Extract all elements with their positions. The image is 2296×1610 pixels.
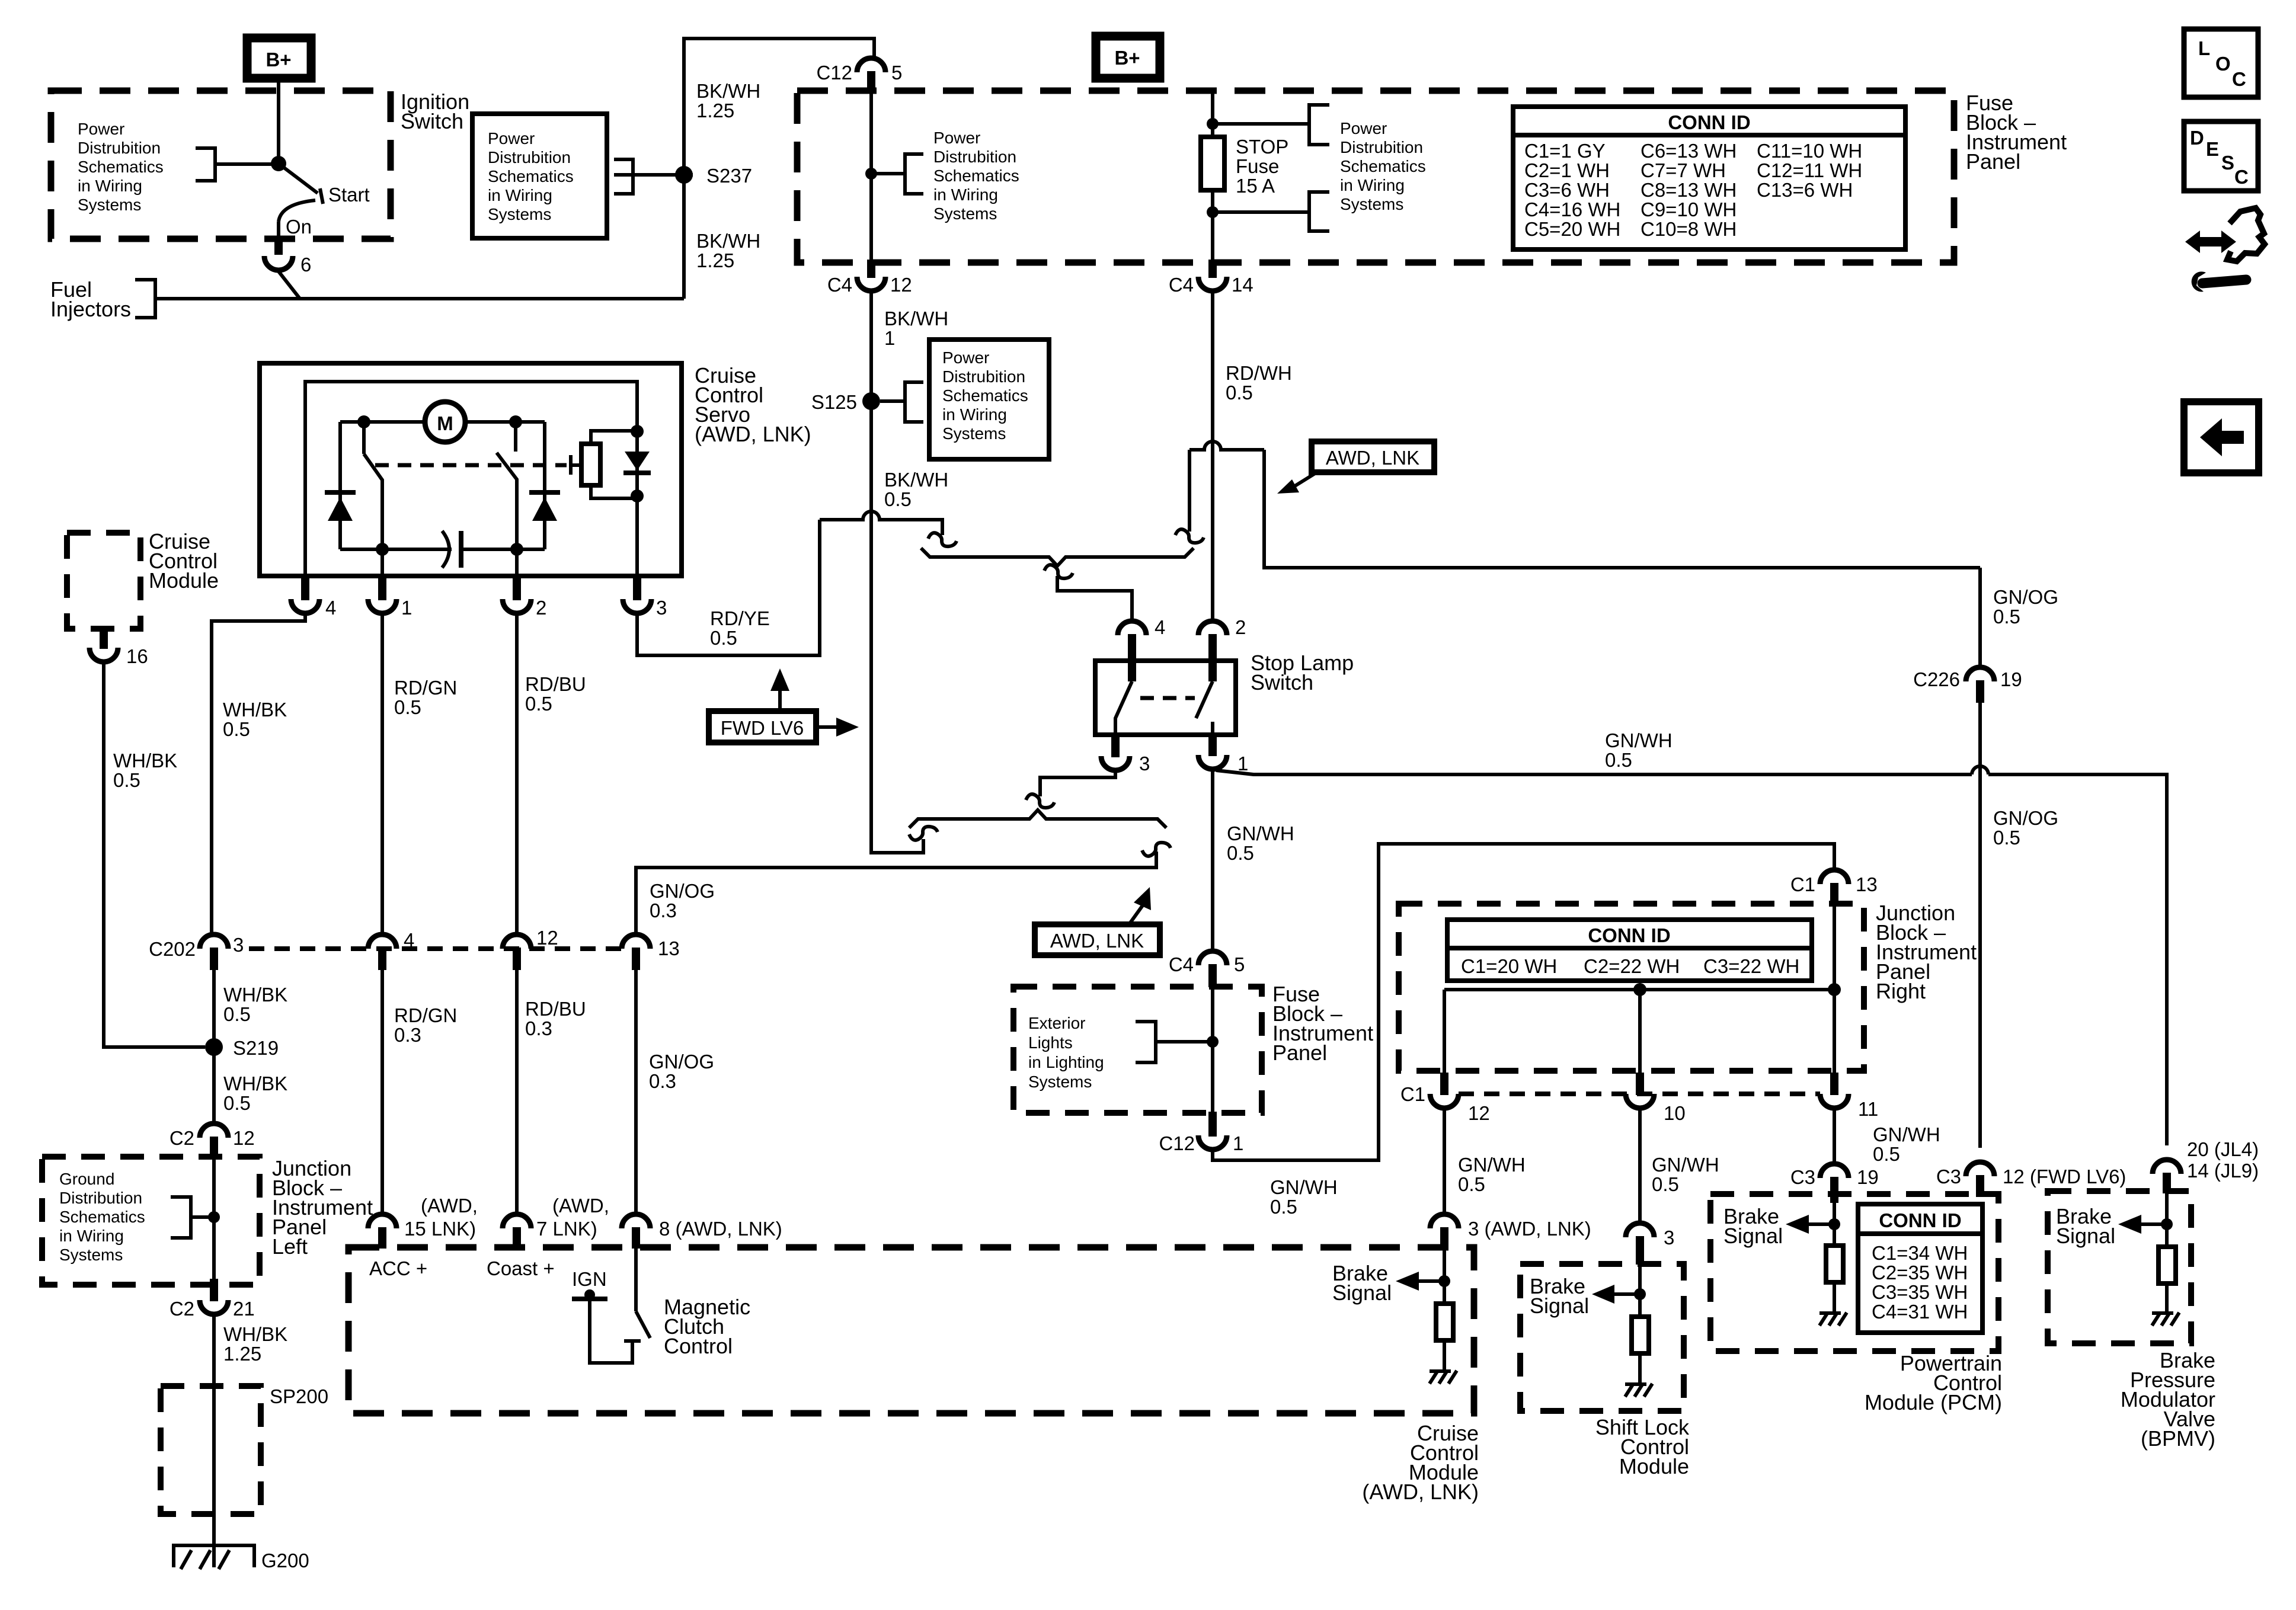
svg-text:14 (JL9): 14 (JL9)	[2187, 1160, 2259, 1182]
brake signal arrow (BPMV)	[2140, 1222, 2167, 1226]
svg-text:C10=8 WH: C10=8 WH	[1641, 218, 1737, 240]
svg-text:0.5: 0.5	[223, 1003, 251, 1025]
svg-text:15 A: 15 A	[1236, 175, 1275, 197]
magnetic clutch control switch	[634, 1249, 638, 1311]
curl: GN/OG joins brace 2	[1142, 843, 1171, 856]
svg-text:WH/BK: WH/BK	[223, 699, 287, 721]
svg-text:Distribution: Distribution	[59, 1189, 142, 1207]
svg-text:0.5: 0.5	[1227, 842, 1254, 864]
svg-text:Injectors: Injectors	[50, 297, 131, 321]
wire through junction block left	[212, 1159, 216, 1280]
wire brace 1 to stop lamp pin 4	[1057, 576, 1132, 622]
svg-text:12: 12	[1468, 1102, 1490, 1124]
connector 6 (ignition switch output)	[264, 256, 293, 270]
svg-text:G200: G200	[261, 1550, 309, 1571]
svg-text:GN/WH: GN/WH	[1873, 1124, 1940, 1145]
svg-text:B+: B+	[266, 49, 291, 71]
svg-text:C4=16 WH: C4=16 WH	[1524, 199, 1620, 220]
svg-text:0.3: 0.3	[649, 1070, 676, 1092]
svg-text:S237: S237	[706, 165, 752, 187]
svg-text:0.3: 0.3	[650, 900, 677, 921]
wire C4-14 down to stop lamp switch pin 2 (RD/WH 0.5)	[1211, 291, 1214, 621]
connector C202 pin 3	[200, 934, 228, 949]
svg-text:Signal: Signal	[1332, 1281, 1392, 1305]
svg-text:C1: C1	[1400, 1083, 1425, 1105]
svg-text:C4=31 WH: C4=31 WH	[1872, 1301, 1968, 1323]
node: ignition switch common junction	[271, 156, 286, 171]
svg-text:0.5: 0.5	[223, 718, 250, 740]
svg-text:19: 19	[2000, 668, 2022, 690]
svg-text:Systems: Systems	[59, 1246, 123, 1264]
svg-text:10: 10	[1664, 1102, 1686, 1124]
svg-text:C4: C4	[827, 274, 852, 296]
svg-text:C3: C3	[1790, 1166, 1815, 1188]
svg-text:Systems: Systems	[488, 205, 551, 223]
svg-text:Signal: Signal	[2056, 1224, 2115, 1248]
wire riser to S237 / C12-5 (BK/WH 1.25)	[684, 39, 874, 299]
motor loop left side	[338, 422, 342, 549]
wire servo pin2 to C202-12 (RD/BU 0.5)	[515, 613, 519, 934]
table CONN ID (fuse block instrument panel)	[1513, 107, 1905, 249]
svg-text:(AWD, LNK): (AWD, LNK)	[1362, 1480, 1479, 1504]
wire C4-12 down to S125 (BK/WH 1)	[869, 291, 873, 401]
svg-text:GN/WH: GN/WH	[1270, 1176, 1338, 1198]
node below stop fuse	[1207, 206, 1219, 218]
svg-text:0.5: 0.5	[1993, 827, 2020, 849]
wires pins 1,2 down inside servo	[380, 549, 384, 576]
bracket to fuel injectors	[135, 280, 155, 318]
svg-text:20 (JL4): 20 (JL4)	[2187, 1138, 2259, 1160]
wire C202-12 down (RD/BU 0.3)	[515, 970, 519, 1214]
node brake signal (BPMV)	[2161, 1218, 2173, 1230]
svg-text:1: 1	[1233, 1132, 1243, 1154]
svg-text:Left: Left	[272, 1234, 308, 1259]
svg-text:Distrubition: Distrubition	[933, 148, 1016, 166]
bracket to power distribution text (fuse block)	[905, 154, 923, 194]
svg-text:C226: C226	[1913, 668, 1960, 690]
svg-text:S219: S219	[233, 1037, 279, 1059]
svg-text:SP200: SP200	[270, 1385, 328, 1407]
svg-text:GN/OG: GN/OG	[1993, 586, 2058, 608]
svg-text:12: 12	[233, 1127, 255, 1149]
svg-text:C1=20 WH: C1=20 WH	[1461, 955, 1557, 977]
svg-text:in Wiring: in Wiring	[942, 405, 1007, 424]
connector C4 pin 12	[867, 260, 875, 278]
svg-text:3 (AWD, LNK): 3 (AWD, LNK)	[1468, 1218, 1591, 1240]
wire through SP200 to G200	[212, 1386, 216, 1547]
icon wrench/vehicle (repair info)	[2185, 231, 2236, 253]
svg-text:0.5: 0.5	[1873, 1143, 1900, 1165]
bracket of power distribution box 2	[905, 382, 923, 422]
svg-text:B+: B+	[1114, 47, 1140, 69]
svg-text:in Lighting: in Lighting	[1028, 1053, 1104, 1071]
node: motor top left	[357, 415, 370, 428]
svg-text:6: 6	[300, 254, 311, 276]
svg-text:(AWD,: (AWD,	[421, 1195, 478, 1217]
svg-text:BK/WH: BK/WH	[696, 230, 760, 252]
svg-text:Panel: Panel	[1966, 149, 2020, 174]
svg-text:Power: Power	[933, 129, 980, 147]
stop lamp right blade	[1196, 681, 1213, 718]
wire servo pin4 to C202-3 (WH/BK 0.5)	[212, 613, 305, 934]
connector C202 pin 4	[368, 934, 396, 949]
right switch blade (open)	[514, 422, 517, 452]
wire S125 to power distribution box 2	[880, 399, 905, 403]
svg-text:16: 16	[126, 645, 148, 667]
svg-text:C: C	[2234, 166, 2249, 188]
svg-text:14: 14	[1232, 274, 1253, 296]
svg-text:in Wiring: in Wiring	[488, 186, 552, 204]
svg-text:0.5: 0.5	[1226, 382, 1253, 404]
connector 20 (JL4) / 14 (JL9)	[2153, 1160, 2181, 1174]
svg-text:Fuse: Fuse	[1236, 155, 1279, 177]
svg-text:WH/BK: WH/BK	[113, 750, 177, 772]
svg-text:Ground: Ground	[59, 1170, 114, 1188]
svg-text:0.5: 0.5	[1605, 749, 1632, 771]
wire pin 3 to brace 2	[1040, 770, 1115, 796]
svg-text:C12=11 WH: C12=11 WH	[1757, 159, 1862, 181]
wire S237 to power distribution box	[614, 173, 693, 177]
node: bottom right (pin 2 tap)	[510, 543, 523, 556]
svg-text:0.5: 0.5	[710, 627, 737, 649]
svg-text:L: L	[2198, 37, 2210, 59]
motor M	[425, 402, 465, 442]
table CONN ID (PCM)	[1858, 1204, 1982, 1333]
splice S219	[205, 1038, 223, 1056]
icon box DESC	[2184, 121, 2258, 191]
splice box SP200	[161, 1386, 261, 1514]
wire C1-13 through bus to pin 11	[1833, 905, 1836, 1074]
svg-text:0.5: 0.5	[1270, 1196, 1297, 1218]
svg-text:13: 13	[1856, 873, 1878, 895]
connector C4 pin 5	[1198, 951, 1227, 965]
node above stop fuse	[1207, 118, 1219, 130]
bracket to power distribution schematics	[196, 148, 215, 181]
svg-text:C13=6 WH: C13=6 WH	[1757, 179, 1853, 201]
cruise control module box (pin 16)	[67, 533, 140, 629]
svg-text:AWD, LNK: AWD, LNK	[1050, 930, 1144, 952]
icon box LOC	[2184, 29, 2258, 97]
svg-text:CONN ID: CONN ID	[1668, 111, 1750, 133]
svg-text:1: 1	[884, 327, 895, 349]
wire C202-13 down (GN/OG 0.3)	[634, 970, 638, 1214]
svg-text:0.5: 0.5	[525, 693, 552, 715]
node: bottom left (pin 1 tap)	[376, 543, 389, 556]
node brake signal (PCM)	[1828, 1218, 1840, 1230]
jog wire (AWD,LNK branch) hopping over RD/WH	[1189, 441, 1264, 450]
svg-text:GN/WH: GN/WH	[1227, 822, 1294, 844]
wire bus to pin 10	[1638, 990, 1642, 1074]
curl: AWD,LNK wire joins brace 1	[1175, 529, 1204, 543]
switch blade from connector 6 to fuel injector feed	[279, 271, 300, 299]
connector C202 pin 12	[503, 934, 531, 949]
svg-text:GN/WH: GN/WH	[1458, 1154, 1526, 1176]
svg-text:13: 13	[658, 937, 680, 959]
servo pin 3	[633, 575, 641, 600]
svg-text:GN/OG: GN/OG	[1993, 807, 2058, 829]
svg-text:Signal: Signal	[1723, 1224, 1783, 1248]
svg-text:BK/WH: BK/WH	[884, 469, 948, 491]
junction block internal bus	[1444, 988, 1834, 991]
svg-text:Module: Module	[149, 568, 219, 593]
svg-text:Power: Power	[488, 129, 535, 148]
wire servo pin1 to C202-4 (RD/GN 0.5)	[380, 613, 384, 934]
brake signal arrow (cruise module)	[1418, 1279, 1444, 1283]
pin 11	[1830, 1073, 1838, 1095]
svg-text:C1=34 WH: C1=34 WH	[1872, 1242, 1968, 1264]
svg-text:Exterior: Exterior	[1028, 1014, 1085, 1032]
wire servo pin3 RD/YE 0.5 to brace 1	[637, 520, 820, 655]
splice S237	[675, 166, 693, 184]
svg-text:Schematics: Schematics	[78, 158, 164, 176]
svg-text:BK/WH: BK/WH	[884, 308, 948, 329]
svg-text:12: 12	[536, 927, 558, 949]
wire inside fuse block from C12-5	[869, 92, 873, 261]
svg-text:C3=22 WH: C3=22 WH	[1703, 955, 1799, 977]
svg-text:3: 3	[233, 934, 244, 956]
svg-text:Power: Power	[78, 120, 124, 138]
svg-text:GN/WH: GN/WH	[1605, 729, 1673, 751]
svg-text:C2: C2	[170, 1127, 194, 1149]
table CONN ID (junction block right)	[1447, 920, 1812, 981]
svg-text:Power: Power	[942, 348, 989, 367]
callout AWD, LNK (lower)	[1035, 924, 1160, 955]
svg-text:(AWD, LNK): (AWD, LNK)	[695, 422, 811, 446]
svg-text:Switch: Switch	[401, 109, 463, 133]
C202 row dashed line	[249, 946, 622, 951]
svg-text:C1=1 GY: C1=1 GY	[1524, 140, 1606, 162]
svg-text:RD/YE: RD/YE	[710, 607, 770, 629]
svg-text:0.3: 0.3	[394, 1024, 421, 1046]
junction block instrument panel left box	[42, 1157, 260, 1285]
svg-text:C3=6 WH: C3=6 WH	[1524, 179, 1610, 201]
wire S219 to C2-12 (WH/BK 0.5)	[212, 1047, 216, 1124]
ground (PCM)	[1819, 1313, 1847, 1326]
wire bus to pin C1-12	[1443, 990, 1446, 1074]
svg-text:STOP: STOP	[1236, 136, 1288, 158]
cruise control module (AWD,LNK) box	[348, 1247, 1474, 1413]
svg-text:15 LNK): 15 LNK)	[404, 1218, 476, 1240]
svg-text:0.5: 0.5	[223, 1092, 251, 1114]
svg-text:0.5: 0.5	[1652, 1173, 1679, 1195]
svg-text:4: 4	[404, 929, 414, 951]
connector C2 pin 12	[200, 1124, 228, 1138]
svg-text:Coast +: Coast +	[487, 1257, 555, 1279]
svg-text:C4: C4	[1169, 274, 1194, 296]
svg-text:Start: Start	[328, 184, 370, 206]
node brake signal (shift lock)	[1634, 1288, 1646, 1300]
resistor (PCM brake input)	[1826, 1246, 1843, 1282]
svg-text:C: C	[2232, 68, 2246, 90]
servo pin 1	[378, 575, 386, 600]
solid box: power distribution schematics (S237)	[472, 114, 607, 238]
fuse block instrument panel box	[797, 91, 1954, 263]
motor loop top wire	[340, 420, 425, 424]
curl: BK/WH joins harness brace 2	[909, 827, 938, 840]
svg-text:C7=7 WH: C7=7 WH	[1641, 159, 1726, 181]
svg-text:C5=20 WH: C5=20 WH	[1524, 218, 1620, 240]
svg-text:GN/WH: GN/WH	[1652, 1154, 1719, 1176]
connector C12 pin 1	[1208, 1112, 1217, 1137]
svg-text:in Wiring: in Wiring	[59, 1227, 124, 1245]
svg-text:0.5: 0.5	[113, 769, 140, 791]
svg-text:FWD LV6: FWD LV6	[721, 717, 804, 739]
wire: fuel injector feed (BK/WH)	[155, 297, 684, 300]
svg-text:19: 19	[1857, 1166, 1879, 1188]
svg-text:4: 4	[1155, 616, 1165, 638]
svg-text:12: 12	[890, 274, 912, 296]
connector 7 (AWD, LNK)	[503, 1214, 531, 1228]
svg-text:O: O	[2215, 53, 2231, 75]
node: tap to power distribution text	[865, 168, 877, 180]
svg-text:GN/OG: GN/OG	[650, 880, 715, 902]
wire C202-3 to S219 (WH/BK 0.5)	[212, 970, 216, 1047]
svg-text:3: 3	[1139, 753, 1150, 774]
svg-text:Schematics: Schematics	[933, 167, 1019, 185]
wire C2-21 to SP200 (WH/BK 1.25)	[212, 1314, 216, 1386]
svg-text:Switch: Switch	[1251, 670, 1313, 694]
svg-text:Signal: Signal	[1530, 1294, 1589, 1318]
connector pin 16	[89, 648, 118, 662]
stop lamp switch pin 3	[1111, 734, 1120, 757]
connector C3 pin 12 (FWD LV6)	[1966, 1162, 1994, 1176]
svg-text:0.5: 0.5	[884, 488, 912, 510]
svg-text:Distrubition: Distrubition	[78, 139, 161, 157]
svg-text:1.25: 1.25	[223, 1343, 261, 1365]
wire C226-19 down to C3-12 (GN/OG 0.5)	[1978, 703, 1982, 1148]
mechanical linkage (dashed)	[375, 463, 567, 468]
switch travel arc (On position)	[279, 200, 315, 222]
servo pin 2	[513, 575, 521, 600]
wire C202-4 down (RD/GN 0.3)	[380, 970, 384, 1214]
svg-text:Systems: Systems	[1028, 1073, 1092, 1091]
svg-text:C2: C2	[170, 1298, 194, 1320]
connector 3 (shift lock)	[1626, 1223, 1654, 1237]
connector row dashed (C1)	[1459, 1092, 1820, 1096]
svg-text:(AWD,: (AWD,	[552, 1195, 609, 1217]
connector C226 pin 19	[1978, 568, 1982, 667]
svg-text:0.5: 0.5	[1993, 606, 2020, 628]
connector C202 pin 13	[622, 934, 650, 949]
node: motor top right	[509, 415, 522, 428]
wire C4-5 to C12-1	[1211, 987, 1214, 1113]
svg-text:RD/BU: RD/BU	[525, 998, 586, 1020]
svg-text:7 LNK): 7 LNK)	[536, 1218, 597, 1240]
svg-text:3: 3	[656, 597, 667, 619]
stop lamp switch pin 1	[1208, 734, 1217, 756]
svg-text:ACC +: ACC +	[369, 1257, 427, 1279]
brake signal arrow (PCM)	[1808, 1222, 1834, 1226]
svg-text:C6=13 WH: C6=13 WH	[1641, 140, 1737, 162]
wire pin 1 down to C4-5 (GN/WH 0.5)	[1211, 769, 1214, 951]
svg-text:S125: S125	[811, 391, 857, 413]
svg-text:2: 2	[1235, 616, 1246, 638]
svg-text:5: 5	[891, 62, 902, 84]
wire fuse taps to power distribution brackets	[1213, 122, 1309, 126]
svg-text:IGN: IGN	[572, 1268, 607, 1290]
harness brace 1	[921, 548, 1194, 566]
wire S125 down (BK/WH 0.5) to brace	[871, 401, 923, 853]
long GN/WH 0.5 wire east to BPMV	[1216, 770, 1972, 774]
curl: pin3 wire joins brace 2 chevron	[1026, 794, 1054, 808]
solid box: power distribution schematics (S125)	[929, 340, 1049, 459]
svg-text:Lights: Lights	[1028, 1033, 1073, 1052]
icon box back-arrow	[2184, 402, 2259, 473]
svg-text:C1: C1	[1790, 873, 1815, 895]
connector C1 pin 13	[1820, 870, 1849, 884]
harness brace 2	[909, 810, 1166, 828]
connector 15 (AWD, LNK)	[368, 1214, 396, 1228]
svg-text:Power: Power	[1340, 119, 1387, 137]
resistor (servo position sensor)	[581, 444, 600, 485]
curl under brace 1 center	[1044, 565, 1073, 578]
shift lock control module box	[1520, 1264, 1684, 1411]
wire pin 10 down to shift lock pin 3 (GN/WH 0.5)	[1638, 1108, 1642, 1223]
diode (down) on pin 3 rail	[625, 452, 650, 470]
resistor (shift lock brake input)	[1632, 1317, 1649, 1353]
wire into stop fuse	[1211, 91, 1214, 137]
power symbol B+ (battery feed, ignition switch)	[247, 38, 311, 78]
svg-text:C4: C4	[1169, 953, 1194, 975]
svg-text:WH/BK: WH/BK	[223, 1323, 287, 1345]
powertrain control module box	[1710, 1194, 1998, 1351]
ground (shift lock)	[1625, 1384, 1652, 1397]
splice S125	[862, 392, 880, 410]
svg-text:E: E	[2206, 138, 2219, 160]
svg-text:in Wiring: in Wiring	[1340, 176, 1405, 194]
connector C3 pin 19	[1820, 1164, 1849, 1178]
wire bracket to C4-5/C12-1 rail	[1156, 1040, 1213, 1044]
svg-text:C12: C12	[1159, 1132, 1195, 1154]
svg-text:RD/GN: RD/GN	[394, 677, 457, 699]
resistor + diode assembly on pin 3 rail	[631, 425, 644, 438]
wire GN/OG 0.3 from C202-13 to brace 2	[636, 852, 1156, 934]
svg-text:1.25: 1.25	[696, 100, 734, 121]
svg-text:C11=10 WH: C11=10 WH	[1757, 140, 1862, 162]
svg-text:BK/WH: BK/WH	[696, 80, 760, 102]
motor loop bottom wire	[340, 548, 452, 551]
svg-text:CONN ID: CONN ID	[1879, 1209, 1961, 1231]
svg-text:Distrubition: Distrubition	[942, 367, 1025, 386]
svg-text:Systems: Systems	[933, 204, 997, 223]
stop lamp switch pin 2	[1198, 621, 1227, 635]
svg-text:0.5: 0.5	[1458, 1173, 1485, 1195]
svg-text:21: 21	[233, 1298, 255, 1320]
connector C4 pin 14	[1208, 260, 1217, 278]
fuse STOP 15A	[1201, 137, 1224, 190]
svg-text:RD/GN: RD/GN	[394, 1004, 457, 1026]
left switch blade (closed)	[362, 422, 366, 454]
svg-text:(BPMV): (BPMV)	[2141, 1426, 2215, 1451]
bracket of power distribution box	[614, 159, 633, 194]
svg-text:4: 4	[325, 597, 336, 619]
connector 3 (AWD, LNK)	[1430, 1214, 1459, 1228]
svg-text:Module: Module	[1619, 1454, 1689, 1478]
bracket lower (power distribution)	[1309, 192, 1329, 231]
stop lamp linkage dashed	[1140, 696, 1195, 700]
ground (BPMV)	[2152, 1313, 2179, 1326]
connector C12 pin 5	[857, 58, 885, 72]
svg-text:S: S	[2221, 152, 2234, 174]
callout AWD, LNK (upper)	[1312, 441, 1434, 472]
node brake signal (cruise module)	[1438, 1275, 1450, 1287]
resistor (BPMV brake input)	[2159, 1247, 2176, 1283]
wire AWD,LNK branch down and east (GN/OG)	[1264, 450, 1980, 568]
connector C2 pin 21	[210, 1279, 218, 1301]
svg-text:On: On	[286, 216, 312, 238]
ground (cruise module)	[1430, 1371, 1457, 1384]
svg-text:3: 3	[1664, 1227, 1674, 1249]
